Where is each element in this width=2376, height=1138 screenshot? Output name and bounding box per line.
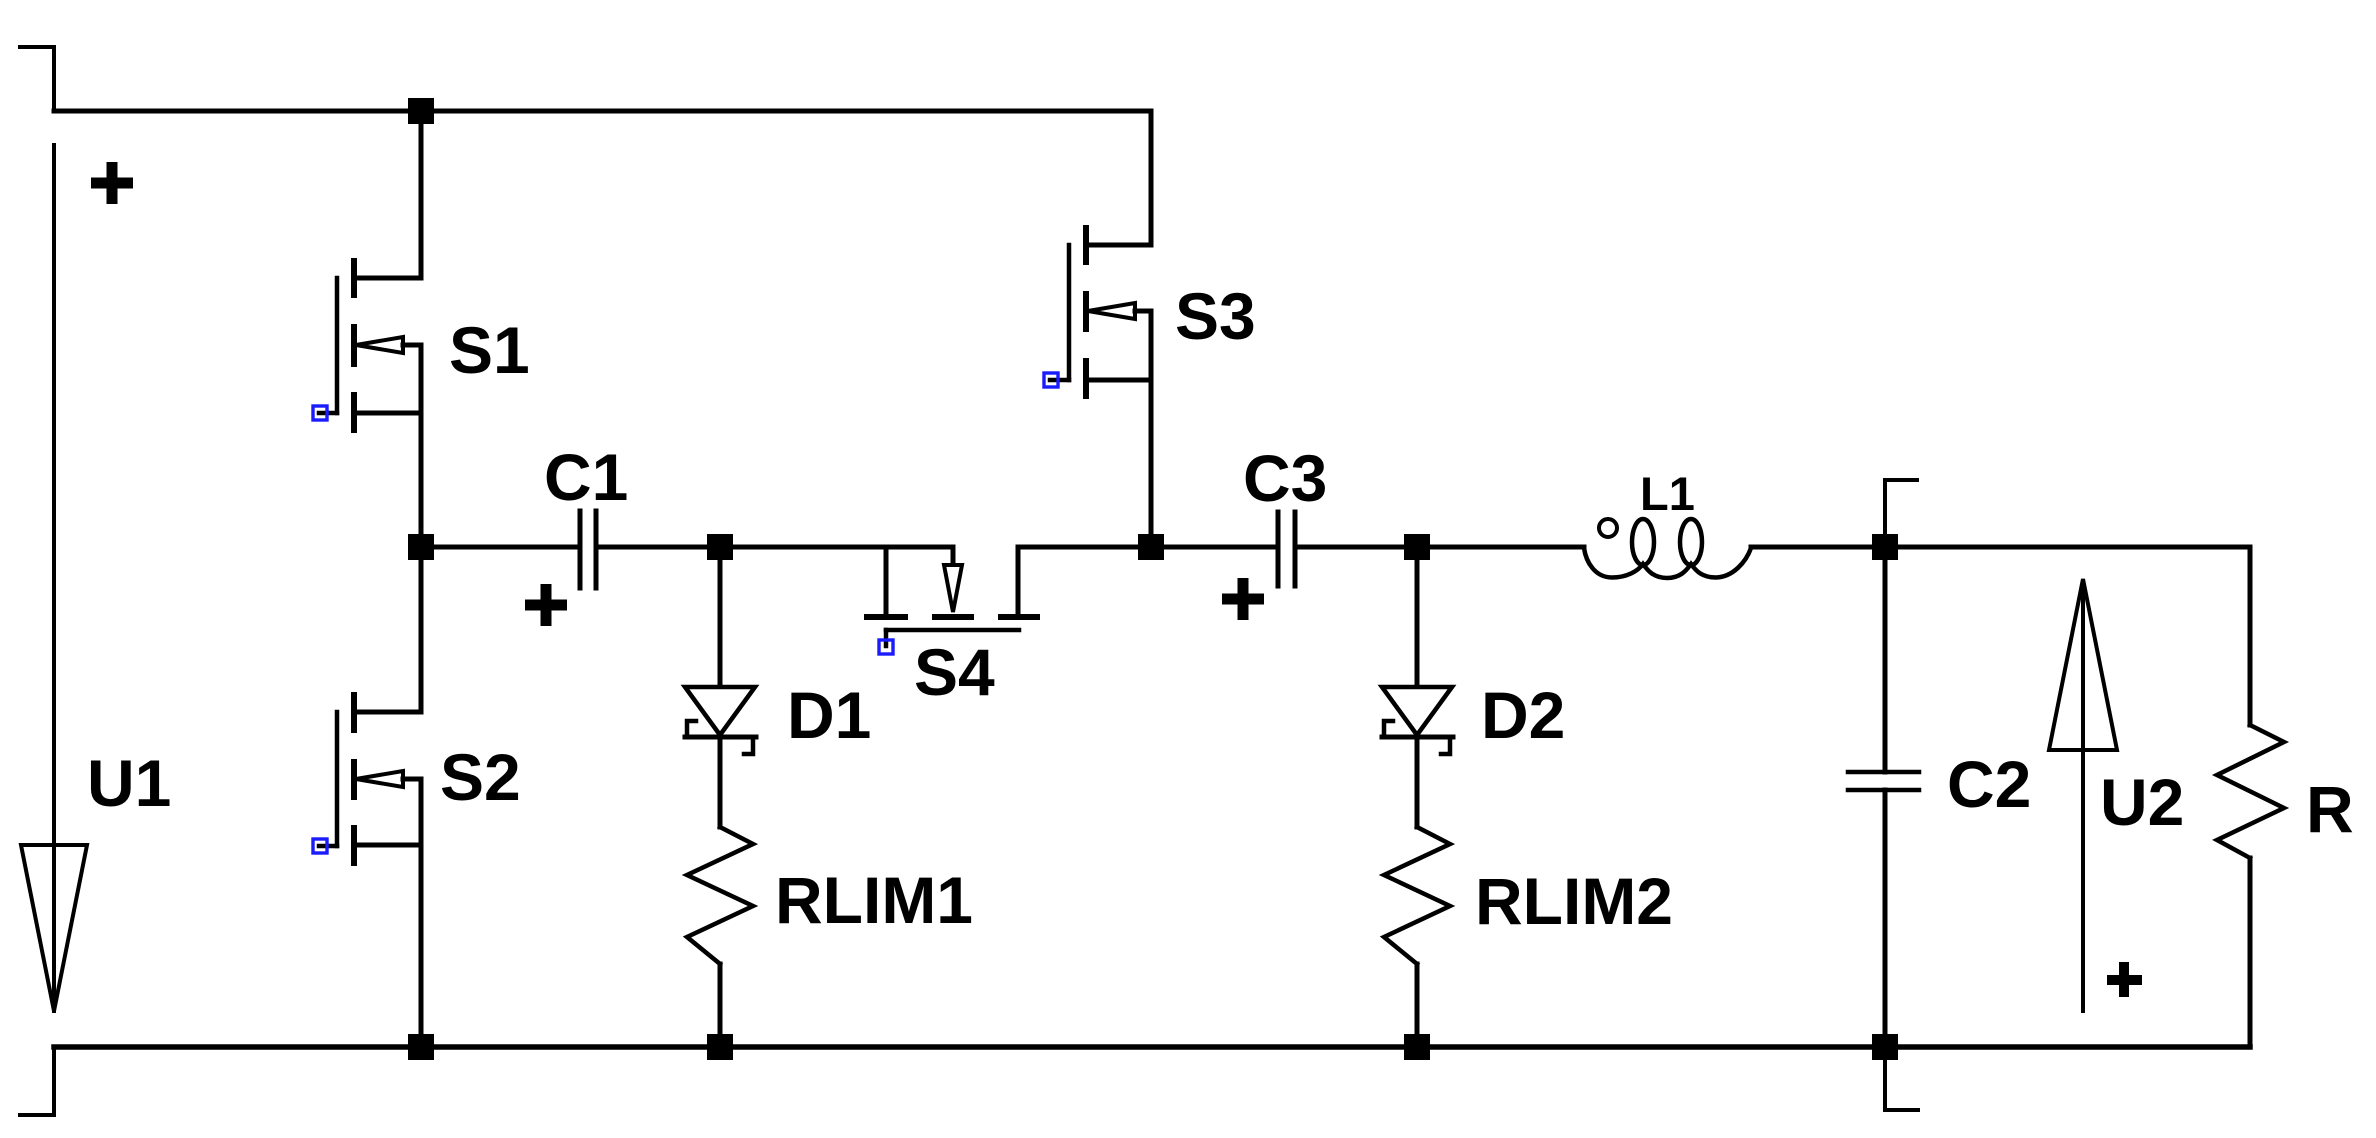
svg-text:U2: U2 <box>2100 765 2184 839</box>
svg-text:C2: C2 <box>1947 747 2031 821</box>
svg-text:RLIM2: RLIM2 <box>1475 864 1673 938</box>
svg-text:L1: L1 <box>1640 467 1695 520</box>
svg-text:D1: D1 <box>787 678 871 752</box>
svg-text:C3: C3 <box>1243 441 1327 515</box>
svg-text:RLIM1: RLIM1 <box>775 863 973 937</box>
svg-text:U1: U1 <box>87 746 171 820</box>
svg-text:R: R <box>2306 772 2354 846</box>
svg-text:S4: S4 <box>914 635 995 709</box>
svg-text:S1: S1 <box>449 313 530 387</box>
svg-text:C1: C1 <box>544 440 628 514</box>
svg-text:D2: D2 <box>1481 678 1565 752</box>
svg-text:S3: S3 <box>1175 279 1256 353</box>
svg-text:S2: S2 <box>440 740 521 814</box>
